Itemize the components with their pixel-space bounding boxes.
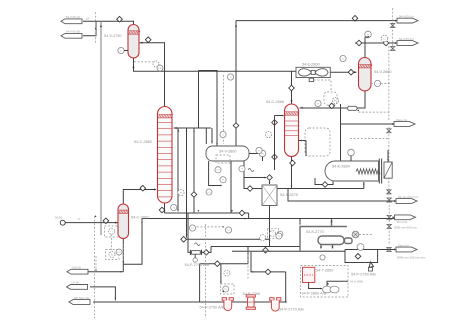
pumps 54-P-2860 A/B bbox=[309, 283, 322, 289]
vessel 54-V-2860 (vertical) bbox=[359, 58, 372, 91]
column 54-C-2866 bbox=[285, 104, 299, 157]
valve bbox=[272, 120, 278, 126]
svg-text:5080-mm-300-mm-mm: 5080-mm-300-mm-mm bbox=[397, 256, 426, 260]
air cooler 54-E-2860 bbox=[296, 63, 331, 90]
svg-text:54-P-2760: 54-P-2760 bbox=[243, 292, 261, 296]
feed pump (left) bbox=[55, 216, 65, 226]
valve bbox=[191, 192, 197, 198]
connector: feed inlet B bbox=[61, 33, 82, 38]
instrument bubble bbox=[270, 231, 276, 237]
instrument bubble bbox=[189, 225, 195, 231]
svg-text:54-C-2860: 54-C-2860 bbox=[134, 140, 152, 144]
svg-text:CW (S): CW (S) bbox=[72, 266, 81, 270]
svg-text:10": 10" bbox=[86, 17, 90, 21]
signal lines (dashed) bbox=[392, 8, 394, 50]
valve bbox=[145, 37, 151, 43]
svg-text:54-P-2750 A/B: 54-P-2750 A/B bbox=[351, 273, 376, 277]
connector: outlet R6 bbox=[394, 249, 396, 251]
wire: 54-C-2860 bottoms header bbox=[164, 203, 166, 213]
instrument bubble bbox=[153, 61, 159, 67]
valve bbox=[181, 237, 187, 243]
valve bbox=[239, 210, 245, 216]
svg-text:54-C-2866: 54-C-2866 bbox=[266, 100, 284, 104]
inline orifice on return line bbox=[347, 106, 358, 110]
instrument bubble bbox=[178, 189, 184, 195]
wire: column 54-C-2860 overhead to drum 54-V-2750 bbox=[140, 43, 165, 107]
svg-text:LP Str: LP Str bbox=[72, 281, 80, 285]
valve bbox=[267, 175, 273, 181]
valve bbox=[329, 103, 335, 109]
svg-text:54-P-2770 A/B: 54-P-2770 A/B bbox=[279, 308, 304, 312]
connector: outlet R2 bbox=[395, 42, 397, 44]
svg-text:54-A-2860: 54-A-2860 bbox=[350, 280, 364, 284]
wire: feed header from connector A to drum 54-V-2750 bbox=[83, 21, 134, 24]
svg-text:54-E-2860: 54-E-2860 bbox=[302, 63, 320, 67]
wire: top product line to connector R1 bbox=[236, 20, 397, 22]
connector: feed inlet A bbox=[61, 19, 82, 24]
instrument bubble bbox=[224, 270, 230, 276]
instrument bubble bbox=[193, 258, 197, 262]
wire: line to connector R5 bbox=[230, 161, 232, 213]
blower 54-K-2770 bbox=[306, 230, 372, 250]
wire: drum top feeds bbox=[199, 71, 218, 147]
valve bbox=[348, 69, 354, 75]
instrument bubble bbox=[381, 35, 388, 42]
instrument bubble bbox=[220, 131, 226, 137]
svg-text:MP Strm (S): MP Strm (S) bbox=[74, 296, 89, 300]
valve bbox=[247, 186, 253, 192]
connector: outlet R3 bbox=[392, 123, 394, 125]
instrument bubble bbox=[276, 233, 282, 239]
riser pipe column side bbox=[177, 128, 179, 212]
instrument bubble bbox=[109, 252, 115, 258]
wire: stripper 54-C-2862 overhead into column bbox=[123, 190, 156, 205]
svg-text:54-T-2850: 54-T-2850 bbox=[316, 269, 333, 273]
wire: stripper 54-C-2862 feed bbox=[66, 222, 118, 224]
svg-text:54-V-05 (in): 54-V-05 (in) bbox=[399, 14, 414, 18]
svg-text:54-mm-05 (in) d: 54-mm-05 (in) d bbox=[398, 195, 418, 199]
instrument bubble bbox=[223, 286, 229, 292]
svg-text:54-P-2860 A/B: 54-P-2860 A/B bbox=[302, 292, 327, 296]
wire: blower discharge to connector R6 bbox=[345, 249, 396, 251]
wire: vapour riser header into column at tray 1 bbox=[174, 127, 212, 129]
connector: outlet R1 bbox=[395, 20, 397, 22]
valve bbox=[289, 85, 295, 91]
svg-text:LG: LG bbox=[208, 192, 211, 194]
riser pipes between column and drum bbox=[186, 128, 188, 238]
wire: long vertical utility line bbox=[100, 21, 102, 235]
svg-text:54-V-05 (A): 54-V-05 (A) bbox=[66, 15, 80, 19]
valve bbox=[265, 269, 271, 275]
instrument bubble bbox=[340, 55, 346, 61]
instrument bubble bbox=[365, 31, 372, 38]
reboiler shell bottom drain bbox=[315, 178, 333, 185]
svg-text:54-C-2862: 54-C-2862 bbox=[131, 216, 149, 220]
valve bbox=[322, 182, 328, 188]
connector: inlet E bbox=[69, 300, 90, 305]
svg-text:54-E-2864: 54-E-2864 bbox=[332, 165, 350, 169]
wire: drum bottoms to filter 54-X-2875 bbox=[244, 159, 266, 178]
instrument bubble bbox=[206, 189, 212, 195]
connector: inlet C (bottom-left) bbox=[67, 269, 88, 274]
valve bbox=[117, 16, 123, 22]
connector: outlet R5 bbox=[393, 216, 395, 218]
instrument bubble bbox=[171, 204, 177, 210]
valve bbox=[272, 154, 278, 160]
instrument bubble bbox=[157, 65, 163, 71]
instrument bubble bbox=[118, 47, 124, 53]
valve bbox=[383, 40, 389, 46]
svg-text:Strm (in): Strm (in) bbox=[398, 243, 409, 247]
svg-text:54-K-2770: 54-K-2770 bbox=[306, 230, 324, 234]
stripper column 54-C-2862 bbox=[118, 204, 129, 239]
wire: 54-V-2860 overhead to connector R2 bbox=[355, 43, 365, 58]
instrument bubble bbox=[277, 231, 283, 237]
valve bbox=[215, 261, 221, 267]
wire: branch down into 54-C-2866 top bbox=[291, 71, 293, 103]
svg-text:54-V-2750: 54-V-2750 bbox=[104, 34, 122, 38]
wire: bottom-left connector lines bbox=[88, 271, 123, 273]
tank 54-T-2850 in dashed enclosure bbox=[301, 266, 364, 298]
valve bbox=[355, 254, 361, 260]
connector: outlet R4 bbox=[394, 200, 396, 202]
instrument bubble bbox=[357, 244, 364, 251]
pump 54-P-2750 A/B (bottom) bbox=[222, 298, 226, 301]
wire: blower loop bbox=[300, 227, 347, 252]
instrument bubble bbox=[259, 150, 266, 157]
instrument bubble bbox=[260, 235, 266, 241]
instrument bubble bbox=[116, 249, 122, 255]
column 54-C-2860 bbox=[158, 107, 173, 204]
instrument bubble bbox=[225, 227, 231, 233]
vessel 54-V-2750 bbox=[128, 25, 139, 59]
valve bbox=[356, 40, 362, 46]
instrument bubble bbox=[374, 80, 380, 86]
svg-text:Flare (in): Flare (in) bbox=[396, 118, 407, 122]
kettle reboiler 54-E-2864 bbox=[325, 149, 392, 183]
svg-text:54-V-05 (in): 54-V-05 (in) bbox=[399, 37, 414, 41]
instrument bubble bbox=[239, 166, 245, 172]
spec break dashed line top-left bbox=[95, 12, 97, 44]
valve bbox=[159, 207, 165, 213]
wire: line to connector R3 bbox=[341, 123, 395, 125]
svg-text:LG: LG bbox=[217, 170, 220, 172]
valve bbox=[290, 160, 296, 166]
svg-text:54-56: 54-56 bbox=[55, 216, 63, 220]
instrument bubble bbox=[348, 149, 355, 156]
instrument bubble bbox=[220, 177, 226, 183]
svg-text:5080-mm-300-mm: 5080-mm-300-mm bbox=[394, 226, 418, 230]
pump 54-P-2760 bbox=[246, 295, 255, 297]
instrument bubble bbox=[320, 255, 325, 260]
instrument bubble bbox=[109, 228, 115, 234]
pump 54-P-2770 A/B bbox=[270, 298, 274, 301]
valve bbox=[203, 250, 209, 256]
wire: 54-V-2860 bottoms back to 54-C-2866 bbox=[300, 91, 366, 108]
svg-text:PD: PD bbox=[158, 68, 161, 70]
svg-text:54-P-2750 A/B: 54-P-2750 A/B bbox=[185, 263, 210, 267]
wire: connector B riser bbox=[83, 21, 96, 36]
pump 54-P-2750 A/B (inline, centre) bbox=[185, 250, 210, 267]
instrument bubble bbox=[315, 100, 321, 106]
instrument bubble bbox=[332, 97, 338, 103]
valve bbox=[352, 16, 358, 22]
instrument bubble bbox=[215, 167, 221, 173]
wire: reboiler product to connector R4 bbox=[288, 189, 396, 202]
relief valve 54-PSV-2750 bbox=[351, 262, 376, 277]
svg-text:LG: LG bbox=[118, 252, 121, 254]
wire: air cooler outlet to 54-V-2860 bbox=[330, 71, 356, 73]
valve bbox=[103, 218, 109, 224]
valve bbox=[233, 123, 239, 129]
wire: pump suction drops bbox=[199, 264, 201, 302]
reflux drum 54-V-2860 (horizontal) bbox=[206, 146, 249, 161]
valve bbox=[140, 185, 146, 191]
filter 54-X-2875 bbox=[262, 185, 298, 206]
instrument bubble bbox=[228, 74, 234, 80]
instrument bubble bbox=[265, 131, 271, 137]
wire: reflux / product lines central bbox=[190, 226, 226, 228]
connector: inlet D bbox=[67, 285, 88, 290]
svg-text:6": 6" bbox=[78, 217, 81, 221]
wire: 54-C-2866 bottoms to reboiler bbox=[292, 157, 364, 189]
wire: 54-V-2750 bottoms to air cooler & column 54-C-2866 bbox=[134, 58, 297, 71]
svg-text:54-X-2875: 54-X-2875 bbox=[280, 193, 298, 197]
wire: filter outlet down bbox=[269, 206, 271, 247]
wire: 54-C-2862 bottoms bbox=[122, 239, 124, 265]
svg-text:54-P-2750 A/B: 54-P-2750 A/B bbox=[200, 306, 225, 310]
valve bbox=[263, 247, 269, 253]
svg-text:54-V-2860: 54-V-2860 bbox=[374, 70, 392, 74]
instrument bubble bbox=[256, 147, 262, 153]
svg-text:Strm (in): Strm (in) bbox=[397, 220, 408, 224]
svg-text:54-V-2860: 54-V-2860 bbox=[219, 150, 237, 154]
svg-text:54-V-05 (B): 54-V-05 (B) bbox=[66, 30, 80, 34]
